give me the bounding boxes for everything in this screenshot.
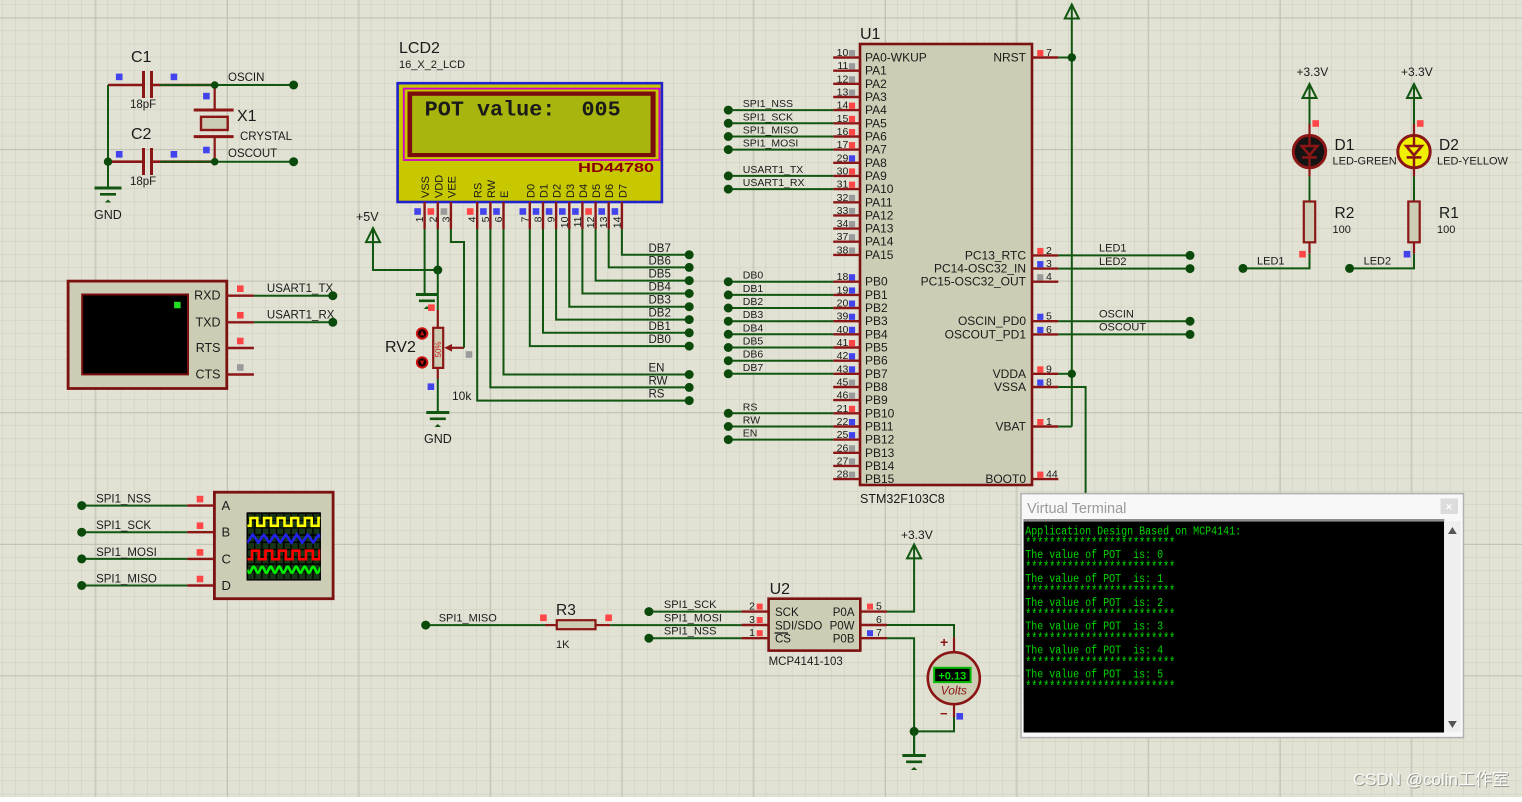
svg-text:4: 4 bbox=[467, 216, 479, 222]
svg-text:VSSA: VSSA bbox=[994, 380, 1026, 394]
svg-text:SPI1_NSS: SPI1_NSS bbox=[96, 494, 151, 506]
svg-text:10: 10 bbox=[559, 216, 571, 228]
svg-text:PB7: PB7 bbox=[865, 367, 888, 381]
CSDN watermark bbox=[1353, 770, 1510, 790]
wire U1 RW net bbox=[724, 415, 833, 432]
wire OSCIN net bbox=[160, 84, 294, 86]
svg-text:CTS: CTS bbox=[196, 368, 221, 382]
svg-text:PB13: PB13 bbox=[865, 446, 895, 460]
svg-text:VBAT: VBAT bbox=[996, 420, 1027, 434]
U2 pin 3 SDI/SDO bbox=[742, 614, 769, 626]
svg-text:LED-YELLOW: LED-YELLOW bbox=[1437, 156, 1509, 168]
LCD pin 3 VEE bbox=[440, 176, 458, 229]
U1 pin 40 PB4 bbox=[833, 324, 888, 342]
wire U1 SPI1_MOSI net bbox=[724, 138, 833, 155]
svg-text:SPI1_MOSI: SPI1_MOSI bbox=[743, 138, 798, 150]
svg-text:1: 1 bbox=[749, 627, 755, 639]
resistor R2 100 bbox=[1299, 202, 1354, 258]
svg-text:USART1_RX: USART1_RX bbox=[743, 177, 805, 189]
power +3.3V (U2) bbox=[901, 528, 933, 558]
resistor R1 100 bbox=[1404, 202, 1459, 258]
svg-text:2: 2 bbox=[749, 601, 755, 613]
U1 pin 28 PB15 bbox=[833, 469, 894, 487]
power +3.3V rail arrow (top) bbox=[1065, 5, 1079, 19]
wire U1 USART1_RX net bbox=[724, 177, 833, 194]
svg-text:RW: RW bbox=[486, 179, 498, 198]
svg-text:SPI1_MISO: SPI1_MISO bbox=[439, 612, 498, 624]
svg-text:USART1_RX: USART1_RX bbox=[267, 310, 335, 322]
U2 pin 6 P0W bbox=[860, 614, 887, 626]
U1 pin 1 VBAT bbox=[996, 416, 1059, 434]
ground bbox=[902, 756, 926, 771]
LCD pin 7 D0 bbox=[519, 184, 537, 229]
svg-text:5: 5 bbox=[480, 216, 492, 222]
oscilloscope pin wire SPI1_SCK bbox=[77, 520, 214, 537]
wire D2 to R1 bbox=[1413, 167, 1415, 176]
crystal X1 bbox=[194, 85, 293, 162]
wire U1 USART1_TX net bbox=[724, 164, 833, 181]
wire OSCOUT net bbox=[160, 161, 294, 163]
LCD pin 6 E bbox=[493, 191, 511, 229]
svg-text:D2: D2 bbox=[552, 184, 564, 198]
U1 pin 22 PB11 bbox=[833, 416, 894, 434]
wire U1 DB4 net bbox=[724, 322, 833, 339]
svg-text:12: 12 bbox=[585, 216, 597, 228]
wire LCD DB3 net bbox=[569, 229, 693, 311]
svg-text:RV2: RV2 bbox=[385, 339, 416, 356]
oscilloscope instrument bbox=[214, 492, 333, 599]
svg-text:PB3: PB3 bbox=[865, 314, 888, 328]
svg-text:28: 28 bbox=[837, 469, 849, 481]
wire voltmeter to ground node bbox=[914, 717, 954, 731]
wire USART1_RX net (terminal TXD) bbox=[254, 310, 337, 327]
wire LCD DB6 net bbox=[609, 229, 694, 272]
svg-text:LCD2: LCD2 bbox=[399, 40, 440, 57]
LCD pin 12 D5 bbox=[585, 184, 603, 229]
svg-text:VEE: VEE bbox=[446, 176, 458, 198]
svg-text:PA3: PA3 bbox=[865, 90, 887, 104]
U2 pin 2 SCK bbox=[742, 601, 769, 613]
svg-text:100: 100 bbox=[1333, 224, 1351, 236]
svg-text:DB0: DB0 bbox=[649, 334, 671, 346]
svg-text:A: A bbox=[222, 498, 231, 513]
U1 pin 38 PA15 bbox=[833, 244, 894, 262]
svg-text:PA8: PA8 bbox=[865, 156, 887, 170]
svg-text:9: 9 bbox=[1046, 363, 1052, 375]
svg-text:PB15: PB15 bbox=[865, 472, 895, 486]
wire U1 SPI1_MISO net bbox=[724, 125, 833, 142]
svg-text:NRST: NRST bbox=[993, 51, 1026, 65]
oscilloscope pin wire SPI1_MISO bbox=[77, 574, 214, 591]
svg-text:+5V: +5V bbox=[356, 210, 379, 224]
svg-text:41: 41 bbox=[837, 337, 849, 349]
svg-text:PA11: PA11 bbox=[865, 195, 893, 209]
svg-text:CRYSTAL: CRYSTAL bbox=[240, 131, 293, 143]
svg-text:DB3: DB3 bbox=[649, 295, 671, 307]
svg-text:8: 8 bbox=[1046, 377, 1052, 389]
svg-text:11: 11 bbox=[837, 60, 848, 72]
wire +3.3V vertical rail to NRST/VDDA/VBAT bbox=[1058, 19, 1076, 427]
svg-text:12: 12 bbox=[837, 73, 849, 85]
wire LCD DB7 net bbox=[622, 229, 694, 259]
svg-text:R3: R3 bbox=[556, 602, 576, 619]
svg-text:OSCIN: OSCIN bbox=[228, 72, 264, 84]
svg-text:32: 32 bbox=[837, 192, 849, 204]
svg-text:PA2: PA2 bbox=[865, 77, 887, 91]
svg-text:9: 9 bbox=[546, 216, 558, 222]
U1 pin 5 OSCIN_PD0 bbox=[958, 311, 1058, 329]
LCD pin 10 D3 bbox=[559, 184, 577, 229]
LCD display LCD2 16_X_2_LCD bbox=[398, 40, 662, 202]
svg-text:*************************: ************************* bbox=[1025, 679, 1175, 696]
U1 pin 12 PA2 bbox=[833, 73, 887, 91]
svg-text:5: 5 bbox=[876, 601, 882, 613]
svg-text:SPI1_SCK: SPI1_SCK bbox=[743, 111, 793, 123]
U1 pin 13 PA3 bbox=[833, 87, 887, 105]
svg-text:DB5: DB5 bbox=[743, 336, 764, 348]
svg-text:33: 33 bbox=[837, 205, 849, 217]
svg-text:PB12: PB12 bbox=[865, 433, 895, 447]
svg-text:PB14: PB14 bbox=[865, 459, 895, 473]
svg-text:2: 2 bbox=[427, 216, 439, 222]
svg-text:11: 11 bbox=[572, 216, 584, 227]
U1 pin 46 PB9 bbox=[833, 390, 888, 408]
svg-text:C2: C2 bbox=[131, 126, 152, 143]
oscilloscope pin wire SPI1_NSS bbox=[77, 494, 214, 511]
wire OSCIN net (U1 side) bbox=[1058, 309, 1194, 326]
wire U2 P0A to +3.3V bbox=[887, 558, 914, 611]
svg-text:40: 40 bbox=[837, 324, 849, 336]
svg-text:VDDA: VDDA bbox=[993, 367, 1026, 381]
svg-text:7: 7 bbox=[1046, 47, 1052, 59]
U1 pin 11 PA1 bbox=[833, 60, 887, 78]
svg-text:18pF: 18pF bbox=[130, 176, 156, 188]
svg-text:RS: RS bbox=[473, 183, 485, 198]
svg-text:DB4: DB4 bbox=[649, 282, 672, 294]
wire R3 to U2 SDI/SDO (SPI1_MOSI net) bbox=[610, 612, 741, 625]
svg-text:7: 7 bbox=[519, 216, 531, 222]
LCD pin 13 D6 bbox=[598, 184, 616, 229]
U1 pin 31 PA10 bbox=[833, 179, 894, 197]
svg-text:42: 42 bbox=[837, 350, 849, 362]
svg-text:TXD: TXD bbox=[196, 315, 221, 329]
svg-text:37: 37 bbox=[837, 231, 849, 243]
svg-text:STM32F103C8: STM32F103C8 bbox=[860, 492, 945, 506]
svg-text:D6: D6 bbox=[604, 184, 616, 198]
svg-text:+0.13: +0.13 bbox=[938, 670, 966, 682]
svg-text:PA0-WKUP: PA0-WKUP bbox=[865, 51, 927, 65]
svg-text:PB10: PB10 bbox=[865, 406, 895, 420]
U1 pin 27 PB14 bbox=[833, 455, 894, 473]
svg-text:LED1: LED1 bbox=[1257, 256, 1285, 268]
U1 pin 17 PA7 bbox=[833, 139, 887, 157]
svg-text:45: 45 bbox=[837, 377, 849, 389]
resistor R3 1K bbox=[540, 602, 612, 651]
capacitor C2 bbox=[108, 126, 215, 188]
svg-text:GND: GND bbox=[94, 208, 122, 222]
svg-text:USART1_TX: USART1_TX bbox=[743, 164, 804, 176]
wire ground node down bbox=[913, 731, 915, 755]
svg-text:D5: D5 bbox=[591, 184, 603, 198]
svg-text:RW: RW bbox=[649, 375, 668, 387]
svg-text:SPI1_NSS: SPI1_NSS bbox=[743, 98, 793, 110]
svg-text:PB5: PB5 bbox=[865, 341, 888, 355]
svg-text:26: 26 bbox=[837, 442, 849, 454]
svg-text:PC15-OSC32_OUT: PC15-OSC32_OUT bbox=[921, 275, 1027, 289]
ground bbox=[95, 188, 122, 203]
svg-text:DB6: DB6 bbox=[649, 255, 671, 267]
svg-text:2: 2 bbox=[1046, 245, 1052, 257]
U1 pin 32 PA11 bbox=[833, 192, 893, 210]
wire SPI1_NSS net to U2 bbox=[644, 626, 741, 643]
svg-text:3: 3 bbox=[1046, 258, 1052, 270]
svg-text:PC14-OSC32_IN: PC14-OSC32_IN bbox=[934, 262, 1026, 276]
svg-text:OSCIN_PD0: OSCIN_PD0 bbox=[958, 314, 1026, 328]
svg-text:D0: D0 bbox=[525, 184, 537, 198]
U1 pin 34 PA13 bbox=[833, 218, 894, 236]
terminal text bbox=[1025, 525, 1241, 696]
wire U1 EN net bbox=[724, 428, 833, 445]
svg-text:CS: CS bbox=[775, 634, 791, 646]
svg-text:20: 20 bbox=[837, 298, 849, 310]
U1 pin 42 PB6 bbox=[833, 350, 888, 368]
wire LCD pin3 to RV2 wiper bbox=[451, 229, 464, 348]
svg-text:PB2: PB2 bbox=[865, 301, 888, 315]
svg-text:34: 34 bbox=[837, 218, 849, 230]
svg-text:OSCOUT: OSCOUT bbox=[1099, 322, 1146, 334]
svg-text:+3.3V: +3.3V bbox=[1297, 65, 1329, 79]
svg-text:BOOT0: BOOT0 bbox=[985, 472, 1026, 486]
svg-text:29: 29 bbox=[837, 152, 849, 164]
wire D1 to R2 bbox=[1308, 167, 1310, 176]
svg-text:PA4: PA4 bbox=[865, 103, 887, 117]
svg-text:5: 5 bbox=[1046, 311, 1052, 323]
wire LED2 net (resistor side) bbox=[1345, 254, 1414, 273]
wire U1 RS net bbox=[724, 401, 833, 418]
svg-text:PB1: PB1 bbox=[865, 288, 888, 302]
LCD pin 14 D7 bbox=[611, 184, 629, 229]
svg-text:22: 22 bbox=[837, 416, 849, 428]
U2 pin 1 CS bbox=[742, 627, 769, 639]
svg-text:C: C bbox=[222, 551, 231, 566]
svg-text:CSDN @colin工作室: CSDN @colin工作室 bbox=[1353, 770, 1509, 789]
svg-text:39: 39 bbox=[837, 311, 849, 323]
svg-text:Volts: Volts bbox=[941, 684, 967, 698]
capacitor C1 bbox=[108, 49, 215, 111]
svg-text:PB4: PB4 bbox=[865, 327, 888, 341]
ground bbox=[416, 295, 438, 310]
svg-text:PA14: PA14 bbox=[865, 235, 894, 249]
svg-text:50%: 50% bbox=[434, 341, 443, 357]
terminal pin CTS bbox=[227, 364, 254, 374]
U1 pin 44 BOOT0 bbox=[985, 469, 1058, 487]
svg-text:PB8: PB8 bbox=[865, 380, 888, 394]
svg-text:7: 7 bbox=[876, 627, 882, 639]
svg-text:OSCOUT: OSCOUT bbox=[228, 148, 277, 160]
svg-text:15: 15 bbox=[837, 113, 849, 125]
svg-text:RTS: RTS bbox=[196, 341, 221, 355]
svg-text:PA7: PA7 bbox=[865, 143, 887, 157]
U2 pin 5 P0A bbox=[860, 601, 887, 613]
svg-text:PB6: PB6 bbox=[865, 354, 888, 368]
svg-text:D1: D1 bbox=[1335, 137, 1355, 154]
svg-text:1: 1 bbox=[1046, 416, 1052, 428]
svg-text:18pF: 18pF bbox=[130, 99, 156, 111]
svg-text:VSS: VSS bbox=[420, 176, 432, 198]
LED D1 LED-GREEN bbox=[1293, 98, 1396, 168]
svg-text:DB0: DB0 bbox=[743, 270, 764, 282]
svg-text:PB11: PB11 bbox=[865, 420, 894, 434]
U1 pin 14 PA4 bbox=[833, 100, 887, 118]
U1 pin 43 PB7 bbox=[833, 363, 888, 381]
svg-text:10k: 10k bbox=[452, 389, 472, 403]
svg-text:DB1: DB1 bbox=[649, 321, 671, 333]
svg-text:DB5: DB5 bbox=[649, 269, 671, 281]
svg-text:PA5: PA5 bbox=[865, 116, 887, 130]
svg-text:PA1: PA1 bbox=[865, 64, 887, 78]
svg-text:SPI1_MISO: SPI1_MISO bbox=[96, 574, 157, 586]
svg-text:DB1: DB1 bbox=[743, 283, 764, 295]
svg-text:U1: U1 bbox=[860, 26, 881, 43]
svg-text:EN: EN bbox=[743, 428, 758, 440]
svg-text:3: 3 bbox=[440, 216, 452, 222]
svg-text:OSCIN: OSCIN bbox=[1099, 309, 1134, 321]
svg-text:LED2: LED2 bbox=[1099, 256, 1127, 268]
LCD pin 1 VSS bbox=[414, 176, 432, 229]
svg-text:SPI1_MOSI: SPI1_MOSI bbox=[96, 547, 157, 559]
U1 pin 15 PA5 bbox=[833, 113, 887, 131]
wire LCD DB4 net bbox=[582, 229, 693, 298]
U1 pin 10 PA0-WKUP bbox=[833, 47, 927, 65]
wire SPI1_SCK net to U2 bbox=[644, 599, 741, 616]
svg-text:GND: GND bbox=[424, 432, 452, 446]
terminal pin RXD bbox=[227, 285, 254, 295]
U2 pin 7 P0B bbox=[860, 627, 887, 639]
svg-text:SPI1_NSS: SPI1_NSS bbox=[664, 626, 717, 638]
Virtual Terminal popup window bbox=[1021, 494, 1464, 738]
U1 pin 33 PA12 bbox=[833, 205, 894, 223]
digital potentiometer U2 MCP4141-103 bbox=[769, 581, 861, 668]
svg-text:PA9: PA9 bbox=[865, 169, 887, 183]
wire SPI1_MISO net to R3 bbox=[421, 612, 545, 629]
wire U1 DB3 net bbox=[724, 309, 833, 326]
wire LCD DB0 net bbox=[530, 229, 694, 351]
wire VSSA down bbox=[1058, 387, 1085, 494]
wire U1 DB5 net bbox=[724, 336, 833, 353]
svg-text:25: 25 bbox=[837, 429, 849, 441]
microcontroller U1 STM32F103C8 bbox=[860, 26, 1032, 506]
svg-text:38: 38 bbox=[837, 244, 849, 256]
svg-text:19: 19 bbox=[837, 284, 849, 296]
svg-text:DB7: DB7 bbox=[649, 243, 671, 255]
svg-text:RXD: RXD bbox=[194, 289, 220, 303]
svg-text:3: 3 bbox=[749, 614, 755, 626]
svg-text:R2: R2 bbox=[1335, 205, 1355, 222]
svg-text:−: − bbox=[940, 706, 948, 721]
svg-text:16_X_2_LCD: 16_X_2_LCD bbox=[399, 59, 465, 71]
svg-text:R1: R1 bbox=[1439, 205, 1459, 222]
U1 pin 8 VSSA bbox=[994, 377, 1058, 395]
svg-text:8: 8 bbox=[533, 216, 545, 222]
svg-text:PB9: PB9 bbox=[865, 393, 888, 407]
svg-text:44: 44 bbox=[1046, 469, 1058, 481]
wire U1 SPI1_SCK net bbox=[724, 111, 833, 128]
oscilloscope pin wire SPI1_MOSI bbox=[77, 547, 214, 564]
svg-text:43: 43 bbox=[837, 363, 849, 375]
svg-text:D: D bbox=[222, 578, 231, 593]
svg-text:6: 6 bbox=[1046, 324, 1052, 336]
svg-text:P0B: P0B bbox=[833, 634, 855, 646]
svg-text:16: 16 bbox=[837, 126, 849, 138]
svg-text:18: 18 bbox=[837, 271, 849, 283]
wire LCD RS net bbox=[477, 229, 694, 405]
svg-text:POT value: 005: POT value: 005 bbox=[425, 100, 621, 123]
power +3.3V (D1) bbox=[1297, 65, 1329, 98]
svg-text:LED1: LED1 bbox=[1099, 243, 1127, 255]
svg-text:1K: 1K bbox=[556, 639, 570, 651]
U1 pin 26 PB13 bbox=[833, 442, 894, 460]
wire U2 P0B down to ground node bbox=[887, 638, 914, 731]
svg-text:OSCOUT_PD1: OSCOUT_PD1 bbox=[945, 327, 1027, 341]
svg-text:DB6: DB6 bbox=[743, 349, 764, 361]
svg-text:17: 17 bbox=[837, 139, 849, 151]
svg-text:DB3: DB3 bbox=[743, 309, 764, 321]
svg-text:MCP4141-103: MCP4141-103 bbox=[769, 656, 843, 668]
svg-text:D1: D1 bbox=[539, 184, 551, 198]
U1 pin 45 PB8 bbox=[833, 377, 888, 395]
svg-text:P0A: P0A bbox=[833, 607, 855, 619]
svg-text:PA13: PA13 bbox=[865, 222, 894, 236]
U1 pin 6 OSCOUT_PD1 bbox=[945, 324, 1059, 342]
svg-text:DB7: DB7 bbox=[743, 362, 764, 374]
LCD pin 11 D4 bbox=[572, 184, 590, 229]
svg-text:LED-GREEN: LED-GREEN bbox=[1333, 156, 1397, 168]
svg-text:31: 31 bbox=[837, 179, 849, 191]
wire RV2 to ground bbox=[437, 379, 439, 412]
wire +5V to LCD VDD bbox=[373, 242, 438, 270]
power +5V bbox=[356, 210, 380, 242]
wire LCD DB1 net bbox=[543, 229, 694, 337]
terminal pin TXD bbox=[227, 312, 254, 322]
U1 pin 29 PA8 bbox=[833, 152, 887, 170]
U1 pin 9 VDDA bbox=[993, 363, 1059, 381]
wire U2 P0W to voltmeter bbox=[887, 625, 954, 637]
svg-text:RS: RS bbox=[743, 401, 758, 413]
wire C1-C2 left vertical bbox=[107, 85, 109, 188]
svg-text:13: 13 bbox=[598, 216, 610, 228]
svg-text:6: 6 bbox=[493, 216, 505, 222]
svg-text:D7: D7 bbox=[617, 184, 629, 198]
svg-text:SCK: SCK bbox=[775, 607, 799, 619]
ground bbox=[426, 413, 449, 428]
svg-text:+3.3V: +3.3V bbox=[901, 528, 933, 542]
svg-text:U2: U2 bbox=[770, 581, 791, 598]
svg-text:6: 6 bbox=[876, 614, 882, 626]
svg-text:13: 13 bbox=[837, 87, 849, 99]
LCD pin 9 D2 bbox=[546, 184, 564, 229]
svg-text:D3: D3 bbox=[565, 184, 577, 198]
wire U1 DB6 net bbox=[724, 349, 833, 366]
virtual terminal instrument (RXD TXD RTS CTS) bbox=[68, 281, 227, 388]
svg-text:LED2: LED2 bbox=[1364, 256, 1392, 268]
U1 pin 37 PA14 bbox=[833, 231, 894, 249]
svg-text:DB2: DB2 bbox=[649, 308, 671, 320]
U1 pin 3 PC14-OSC32_IN bbox=[934, 258, 1058, 276]
svg-text:E: E bbox=[499, 191, 511, 198]
U1 pin 39 PB3 bbox=[833, 311, 888, 329]
U1 pin 19 PB1 bbox=[833, 284, 888, 302]
svg-text:HD44780: HD44780 bbox=[578, 161, 654, 175]
